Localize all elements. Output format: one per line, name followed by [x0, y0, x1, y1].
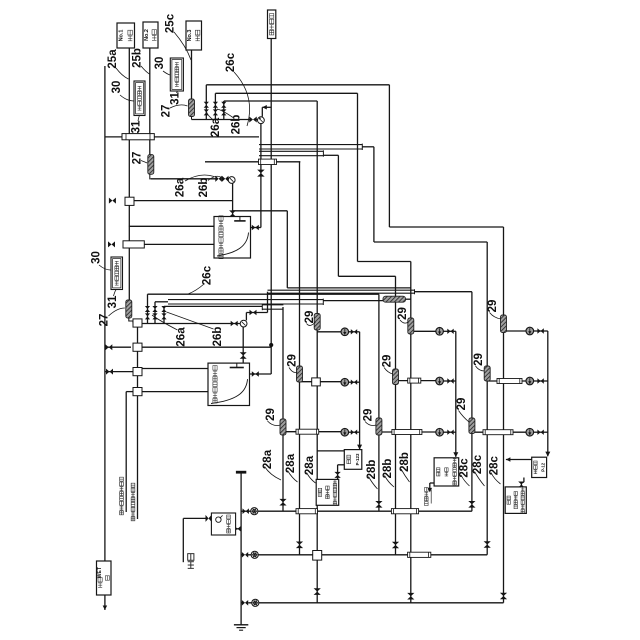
svg-text:28c: 28c [472, 454, 484, 474]
svg-text:26a: 26a [210, 117, 222, 137]
svg-text:29: 29 [487, 300, 499, 313]
svg-text:P-123: P-123 [355, 453, 360, 465]
svg-text:30: 30 [154, 57, 166, 70]
svg-text:29: 29 [265, 408, 277, 421]
svg-text:25b: 25b [132, 48, 144, 68]
svg-text:28b: 28b [366, 460, 378, 480]
svg-text:28a: 28a [262, 449, 274, 469]
svg-text:31: 31 [131, 120, 143, 133]
svg-text:26b: 26b [212, 327, 224, 347]
svg-text:26c: 26c [202, 265, 214, 285]
svg-text:No.3: No.3 [187, 30, 193, 42]
svg-text:31: 31 [107, 295, 119, 308]
svg-text:27: 27 [161, 105, 173, 118]
svg-text:29: 29 [456, 398, 468, 411]
svg-text:29: 29 [363, 409, 375, 422]
svg-text:28a: 28a [304, 455, 316, 475]
svg-text:27: 27 [132, 152, 144, 165]
svg-text:28a: 28a [285, 453, 297, 473]
svg-text:29: 29 [287, 354, 299, 367]
svg-text:29: 29 [473, 353, 485, 366]
svg-text:29: 29 [382, 355, 394, 368]
svg-text:25c: 25c [165, 13, 177, 33]
svg-text:28c: 28c [489, 456, 501, 476]
svg-text:No.2: No.2 [144, 29, 150, 41]
svg-text:29: 29 [397, 307, 409, 320]
svg-text:30: 30 [91, 251, 103, 264]
svg-text:28b: 28b [382, 459, 394, 479]
svg-text:26a: 26a [175, 177, 187, 197]
svg-text:26c: 26c [225, 52, 237, 72]
svg-text:31: 31 [170, 92, 182, 105]
svg-text:25a: 25a [107, 49, 119, 69]
svg-text:28c: 28c [459, 458, 471, 478]
svg-text:26b: 26b [231, 115, 243, 135]
svg-text:WET: WET [97, 566, 103, 578]
svg-text:P-12: P-12 [540, 462, 545, 472]
svg-text:No.1: No.1 [118, 30, 124, 42]
svg-text:29: 29 [304, 311, 316, 324]
svg-text:28b: 28b [399, 452, 411, 472]
svg-text:30: 30 [111, 81, 123, 94]
